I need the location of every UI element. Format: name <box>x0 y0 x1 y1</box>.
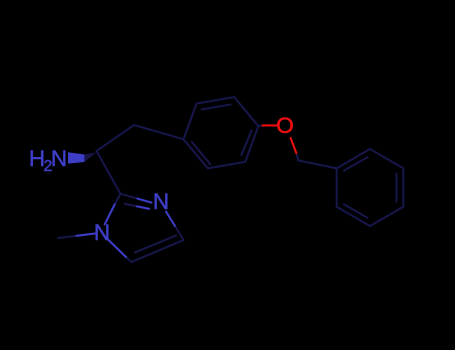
wire: C4=C5 inner line <box>135 236 176 253</box>
wire: benzyl ring double bond Bm-LL <box>344 204 368 218</box>
wire: C1-C2 bond <box>97 151 121 194</box>
wire: C2=N3 blue half inner <box>137 206 149 208</box>
wire: C6-ring bond <box>134 125 184 139</box>
svg-text:O: O <box>276 113 294 138</box>
wire: ring-O navy stub <box>258 124 263 127</box>
node B: benzyl ring outline <box>337 149 404 226</box>
wire: N3-C4 blue half <box>166 212 175 227</box>
wire: N1-CH3 blue half <box>77 234 96 236</box>
svg-text:N: N <box>153 189 169 214</box>
wire: benzyl ring double bond UL-T <box>344 157 368 171</box>
wire: N3-C4 navy half <box>175 226 184 240</box>
wire: O red bond right <box>291 138 297 153</box>
wire: C2=N3 navy half main <box>121 194 138 199</box>
wire: C2=N3 navy half inner <box>125 204 138 207</box>
wire: middle ring double bond B-C <box>202 105 231 110</box>
svg-text:N: N <box>51 146 67 171</box>
wire: benzyl ring double bond UR-LR <box>395 174 397 202</box>
wire: N1-C5 blue half <box>109 240 127 257</box>
wire: O red bond left <box>263 124 278 126</box>
wire: O-CH2 navy half <box>296 153 298 161</box>
svg-text:N: N <box>94 220 110 245</box>
wire: C4=C5 bond <box>132 240 184 262</box>
wedge bond blue half to NH2 <box>68 152 84 163</box>
wire: N1-CH3 navy half <box>58 236 77 238</box>
wedge bond navy tip at C1 <box>84 152 96 162</box>
wire: CH2-benzyl ring bond <box>299 161 337 169</box>
wire: N1-C2 blue half <box>105 203 116 224</box>
wire: C2=N3 blue half main <box>138 199 152 203</box>
wire: C1-C6 chain bond <box>97 125 135 151</box>
wire: middle ring double bond D-E <box>192 142 211 164</box>
wire: N1-C5 navy half <box>126 257 132 262</box>
wire: middle ring double bond F-A <box>241 131 251 156</box>
node A: middle benzene ring outline <box>184 97 259 168</box>
